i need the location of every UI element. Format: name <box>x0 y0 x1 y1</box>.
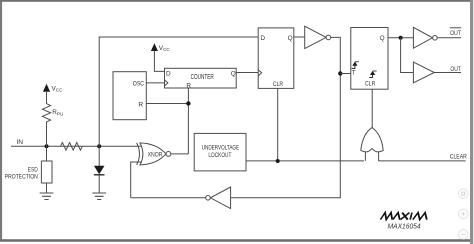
wire OR right input stub <box>378 152 380 161</box>
svg-text:PROTECTION: PROTECTION <box>5 175 38 181</box>
svg-text:Q: Q <box>380 35 385 42</box>
svg-text:ESD: ESD <box>28 167 39 173</box>
wire inverter out, feedback down <box>231 37 341 197</box>
wire OSC R to junction <box>146 103 188 105</box>
wire UVLO output net to OR gate <box>246 160 364 162</box>
wire IN dot down to ESD box <box>46 146 48 161</box>
ground (under ESD) <box>40 193 54 200</box>
svg-text:OUT: OUT <box>450 66 460 73</box>
wire U5 out to XNOR branch <box>131 197 206 199</box>
XNOR gate U4 <box>137 143 171 165</box>
node junction dot CLR net <box>276 159 280 163</box>
node junction dot IN/diode/top-wire <box>97 144 101 148</box>
svg-text:OSC: OSC <box>133 80 144 87</box>
svg-text:Q: Q <box>231 70 236 77</box>
wire VCC to counter D input <box>154 50 164 71</box>
wire OUT-bar <box>437 37 461 39</box>
frame bottom border <box>0 239 471 242</box>
buffer U9 (OUT) <box>413 62 434 83</box>
ground (under diode) <box>92 193 106 200</box>
wire OSC clock out <box>146 82 164 84</box>
node junction dot Q out <box>399 36 403 40</box>
frame top border <box>0 0 471 2</box>
svg-text:LOCKOUT: LOCKOUT <box>208 152 231 159</box>
inverter U3 <box>305 26 326 48</box>
frame left border <box>0 0 2 240</box>
inverter U5 (feedback, points left) <box>210 187 230 209</box>
T flip-flop U7 box <box>351 28 388 90</box>
wire counter Q to D-FF clock <box>236 72 258 74</box>
svg-text:D: D <box>166 70 171 77</box>
node junction dot IN/RPU/ESD <box>45 144 49 148</box>
svg-text:CLEAR: CLEAR <box>450 154 467 161</box>
svg-text:CLR: CLR <box>365 80 376 87</box>
edge symbol at CLR <box>369 71 377 78</box>
wire to T input <box>340 73 351 75</box>
wire IN horizontal <box>11 145 142 147</box>
undervoltage lockout box <box>194 133 246 171</box>
counter box <box>165 68 237 88</box>
OR gate U6 (points up) <box>361 128 383 152</box>
svg-text:T: T <box>352 69 356 76</box>
wire CLEAR <box>379 160 466 162</box>
svg-text:COUNTER: COUNTER <box>191 74 214 81</box>
svg-text:MAX16054: MAX16054 <box>388 222 421 231</box>
wire OR left input stub <box>364 152 366 161</box>
svg-text:XNOR: XNOR <box>148 151 163 158</box>
wire diode branch <box>98 146 100 193</box>
wire D-FF Q to inverter <box>294 36 305 38</box>
wire down to second buffer <box>401 38 414 73</box>
counter clock wedge <box>165 80 168 86</box>
wire VCC to RPU <box>46 91 48 104</box>
wire D-FF CLR down <box>277 88 279 161</box>
wire IN node up to D line and across to D flip-flop <box>99 37 258 146</box>
D-FF clock wedge <box>258 70 262 76</box>
frame right scrollbar <box>470 0 473 244</box>
power VCC arrow (above counter) <box>151 43 158 51</box>
power VCC arrow (left) <box>43 84 50 92</box>
svg-text:Q: Q <box>288 35 293 42</box>
node junction dot T net <box>338 71 342 75</box>
svg-text:CLR: CLR <box>273 81 283 88</box>
svg-text:R: R <box>138 102 143 109</box>
node junction dot R net <box>186 101 190 105</box>
wire T-FF Q out <box>388 37 413 39</box>
viewer button 1 <box>459 189 469 199</box>
svg-text:D: D <box>260 35 265 42</box>
svg-text:OUT: OUT <box>450 30 461 37</box>
svg-text:UNDERVOLTAGE: UNDERVOLTAGE <box>202 145 240 152</box>
resistor series (IN line) <box>60 143 82 151</box>
oscillator OSC box <box>113 72 146 120</box>
wire OR output to T-FF CLR <box>371 89 373 128</box>
viewer button 2 <box>459 209 469 219</box>
wire counter R down <box>187 88 189 154</box>
wire XNOR output to R net <box>171 153 189 155</box>
buffer U8 (inverting, OUT-bar) <box>413 27 432 48</box>
wire ESD box to ground <box>46 183 48 193</box>
wire OUT <box>434 72 461 74</box>
wire XNOR bottom input <box>131 162 142 198</box>
ESD protection box <box>41 161 52 183</box>
svg-text:IN: IN <box>16 139 23 146</box>
D flip-flop U2 box <box>258 28 294 89</box>
diode D1 <box>94 166 105 175</box>
edge symbol at T input <box>352 62 359 69</box>
viewer button 3 <box>459 230 469 240</box>
MAXIM logo <box>380 213 428 220</box>
resistor RPU <box>42 104 50 147</box>
